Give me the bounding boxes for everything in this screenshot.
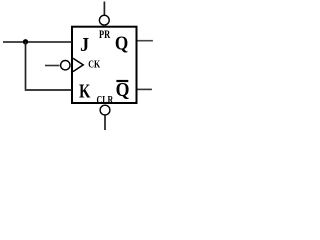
svg-text:CLR: CLR — [97, 94, 114, 107]
svg-text:CK: CK — [88, 59, 100, 70]
svg-text:PR: PR — [99, 29, 111, 42]
svg-text:K: K — [79, 79, 91, 102]
svg-text:Q: Q — [116, 79, 130, 101]
svg-text:Q: Q — [115, 33, 128, 56]
svg-text:J: J — [80, 34, 89, 56]
